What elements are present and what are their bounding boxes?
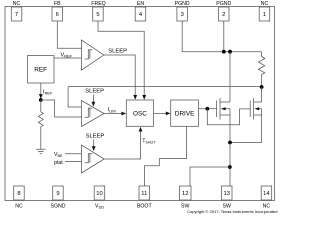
wire IREF: REF down to node bbox=[40, 83, 42, 100]
svg-text:2: 2 bbox=[222, 12, 225, 18]
pin 6 FB (top) bbox=[52, 1, 63, 21]
wire FB: pin 6 to comparator U1 upper input bbox=[57, 21, 81, 48]
wire arrowhead IREF down bbox=[39, 94, 43, 99]
svg-text:10: 10 bbox=[96, 191, 102, 197]
wire arrow into OSC top (sleep) bbox=[133, 95, 137, 100]
DRIVE block bbox=[171, 100, 199, 126]
svg-text:8: 8 bbox=[17, 191, 20, 197]
pin 10 VDD (bottom) bbox=[94, 186, 105, 209]
wire SW branch to pin 12 bbox=[190, 167, 230, 186]
chip border bbox=[5, 7, 275, 201]
svg-text:NC: NC bbox=[13, 1, 21, 7]
svg-text:OSC: OSC bbox=[133, 110, 147, 117]
pin 13 SW (bottom) bbox=[222, 186, 233, 209]
svg-text:REF: REF bbox=[45, 91, 53, 96]
wire U3 output TSHUT to OSC bottom bbox=[104, 131, 140, 159]
svg-text:BE: BE bbox=[58, 154, 64, 158]
wire node to comparator U2 lower input bbox=[41, 100, 82, 117]
pin 12 SW (bottom) bbox=[180, 186, 192, 209]
wire PGND pin3 riser bbox=[181, 21, 183, 52]
svg-text:NC: NC bbox=[15, 203, 23, 209]
node junction dot M1 drain/bus bbox=[228, 50, 232, 54]
svg-text:FREQ: FREQ bbox=[91, 1, 105, 7]
ground bbox=[36, 149, 45, 154]
wire SW net M2 source to M1 source bbox=[230, 142, 262, 144]
wire FREQ: pin 5 to OSC top bbox=[98, 21, 144, 96]
svg-text:NC: NC bbox=[261, 1, 269, 7]
wire gate bus to M2 bbox=[207, 109, 250, 125]
pin 4 EN (top) bbox=[135, 1, 146, 21]
svg-text:EN: EN bbox=[137, 1, 144, 7]
wire gate bus from DRIVE bbox=[199, 108, 217, 110]
wire current sense loop to U2 upper input bbox=[68, 87, 81, 107]
wire arrow into OSC left bbox=[121, 112, 126, 116]
node junction dot sense bbox=[260, 85, 264, 89]
wire U2 output to OSC bbox=[104, 113, 122, 115]
svg-text:DRIVE: DRIVE bbox=[175, 110, 195, 117]
op-amp U1 sleep comparator bbox=[82, 40, 104, 70]
pin 2 PGND (top) bbox=[216, 1, 231, 21]
transistor M2 bbox=[250, 87, 261, 143]
op-amp U2 current limit comparator bbox=[82, 101, 105, 127]
node junction dot SW upper bbox=[228, 141, 232, 145]
svg-text:REF: REF bbox=[34, 67, 47, 74]
pin 11 BOOT (bottom) bbox=[137, 186, 153, 209]
svg-text:DD: DD bbox=[99, 205, 105, 209]
op-amp U3 thermal comparator bbox=[82, 145, 105, 173]
svg-text:12: 12 bbox=[182, 191, 188, 197]
pin 1 NC (top) bbox=[259, 1, 270, 21]
REF block bbox=[28, 56, 55, 84]
svg-text:Copyright © 2017, Texas Instru: Copyright © 2017, Texas Instruments Inco… bbox=[187, 209, 277, 214]
svg-text:FB: FB bbox=[54, 1, 61, 7]
wire arrow into OSC bottom bbox=[139, 127, 143, 132]
transistor M1 bbox=[217, 98, 230, 143]
svg-text:BOOT: BOOT bbox=[137, 203, 153, 209]
svg-text:13: 13 bbox=[223, 191, 229, 197]
svg-text:9: 9 bbox=[56, 191, 59, 197]
svg-text:PGND: PGND bbox=[216, 1, 231, 7]
wire drain bus bbox=[182, 51, 261, 53]
OSC block bbox=[126, 100, 153, 126]
svg-text:SLEEP: SLEEP bbox=[108, 49, 127, 55]
svg-text:ptat: ptat bbox=[54, 160, 63, 166]
svg-text:5: 5 bbox=[96, 12, 99, 18]
pin 3 PGND (top) bbox=[175, 1, 190, 21]
wire VREF: REF to comparator U1 lower input bbox=[54, 57, 82, 59]
svg-text:11: 11 bbox=[141, 191, 147, 197]
wire OSC to DRIVE bbox=[154, 112, 167, 114]
wire sleep arrow into U3 bbox=[93, 140, 95, 148]
svg-text:1: 1 bbox=[263, 12, 266, 18]
node junction dot SW lower bbox=[228, 165, 232, 169]
pin 9 SGND (bottom) bbox=[51, 186, 66, 209]
wire ptat stub bbox=[65, 161, 82, 163]
svg-text:PGND: PGND bbox=[175, 1, 190, 7]
wire BOOT from DRIVE bottom to pin 11 bbox=[145, 126, 187, 186]
wire SW column down bbox=[229, 143, 231, 187]
wire VBE stub bbox=[65, 153, 82, 155]
wire arrow into OSC top (freq) bbox=[142, 95, 146, 100]
svg-text:14: 14 bbox=[263, 191, 270, 197]
svg-text:3: 3 bbox=[181, 12, 184, 18]
node junction dot IREF bbox=[39, 98, 43, 102]
wire sleep arrow into U2 bbox=[92, 95, 94, 103]
wire M1 drain riser bbox=[229, 52, 231, 102]
resistor R2 (sense) bbox=[258, 52, 264, 87]
wire PGND pin2 riser bbox=[223, 21, 225, 52]
svg-text:SLEEP: SLEEP bbox=[86, 134, 105, 140]
svg-text:LIM: LIM bbox=[109, 108, 116, 113]
pin 5 FREQ (top) bbox=[91, 1, 105, 21]
wire U1 output to OSC top bbox=[104, 55, 135, 96]
svg-text:REF: REF bbox=[64, 54, 72, 59]
svg-text:SHUT: SHUT bbox=[145, 140, 156, 144]
svg-text:SGND: SGND bbox=[51, 203, 66, 209]
node junction dot pin2/bus bbox=[222, 50, 226, 54]
pin 8 NC (bottom) bbox=[14, 186, 25, 209]
svg-text:6: 6 bbox=[56, 12, 59, 18]
pin 7 NC (top) bbox=[11, 1, 21, 21]
resistor R1 (reference) bbox=[38, 100, 43, 149]
svg-text:7: 7 bbox=[15, 12, 18, 18]
svg-text:SLEEP: SLEEP bbox=[85, 89, 104, 95]
node junction dot gate bbox=[205, 107, 209, 111]
pin 14 NC (bottom) bbox=[261, 186, 272, 209]
wire current sense line across to R2 bbox=[68, 86, 262, 88]
